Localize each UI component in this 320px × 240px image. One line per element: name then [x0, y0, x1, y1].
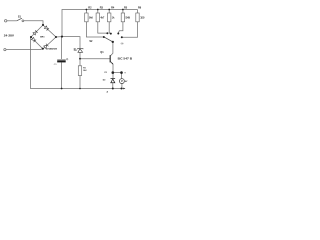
svg-text:R2: R2: [88, 6, 92, 9]
svg-text:5V1: 5V1: [74, 50, 77, 52]
svg-text:C2: C2: [104, 72, 107, 74]
svg-text:BC 547 B: BC 547 B: [118, 57, 133, 61]
svg-text:R4: R4: [111, 6, 115, 9]
svg-text:V: V: [121, 79, 123, 83]
svg-text:2k2: 2k2: [83, 70, 87, 72]
svg-text:15: 15: [140, 18, 146, 20]
svg-text:D2: D2: [103, 79, 106, 81]
svg-text:(+): (+): [121, 43, 124, 45]
svg-text:A: A: [107, 91, 109, 94]
svg-text:R6: R6: [138, 6, 142, 9]
svg-text:56: 56: [125, 18, 131, 20]
svg-text:5k6: 5k6: [89, 18, 94, 20]
svg-text:C1: C1: [54, 64, 58, 66]
svg-text:24-28V: 24-28V: [4, 35, 15, 38]
svg-text:R3: R3: [100, 6, 104, 9]
svg-text:BR1: BR1: [40, 36, 45, 38]
svg-text:S2: S2: [89, 40, 93, 43]
svg-text:Q1: Q1: [100, 51, 104, 54]
svg-text:6V: 6V: [125, 81, 128, 83]
svg-text:1k: 1k: [112, 18, 115, 20]
svg-text:1N4008: 1N4008: [46, 48, 59, 51]
svg-text:R5: R5: [124, 6, 128, 9]
svg-text:4k7: 4k7: [100, 17, 105, 20]
svg-text:+: +: [124, 72, 126, 75]
svg-text:S1: S1: [18, 16, 22, 19]
